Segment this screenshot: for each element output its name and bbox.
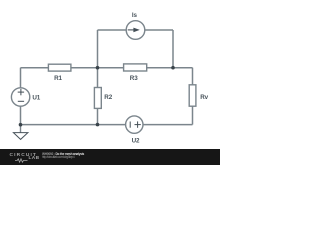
wire left rail U1 bottom xyxy=(20,106,22,124)
wire R2 top stub xyxy=(97,68,99,88)
node C junction U1/ground/bottom rail xyxy=(19,123,23,127)
wire top-left vertical (node R1/R2 to top rail) xyxy=(97,30,99,68)
resistor R1 xyxy=(48,64,71,71)
svg-text:R1: R1 xyxy=(54,75,62,82)
svg-text:Is: Is xyxy=(132,12,138,19)
wire Rv top stub xyxy=(192,68,194,85)
node B junction top/R3/Rv xyxy=(171,66,175,70)
svg-text:U1: U1 xyxy=(32,95,40,102)
wire bottom rail right segment xyxy=(143,124,192,126)
svg-text:R2: R2 xyxy=(104,94,112,101)
wire left rail U1 top xyxy=(20,68,22,88)
wire bottom rail left segment xyxy=(21,124,126,126)
svg-text:Rv: Rv xyxy=(200,94,208,101)
wire right vertical from top rail xyxy=(172,30,174,68)
CircuitLab logo text CIRCUIT xyxy=(10,154,38,158)
wire middle rail R3 right to corner xyxy=(147,67,193,69)
voltage source U1 xyxy=(11,88,29,106)
svg-text:R3: R3 xyxy=(130,75,138,82)
CircuitLab logo text LAB xyxy=(29,157,40,161)
CircuitLab logo resistor zigzag xyxy=(15,158,28,163)
svg-text:U2: U2 xyxy=(132,137,140,144)
wire top rail right segment xyxy=(145,29,173,31)
resistor Rv xyxy=(189,85,196,106)
current source Is xyxy=(126,21,145,40)
wire Rv bottom stub xyxy=(192,106,194,124)
node D junction R2/bottom rail xyxy=(96,123,100,127)
wire top rail left segment xyxy=(98,29,127,31)
footer meta text line 2 xyxy=(42,156,74,159)
node A junction R1/R2/R3 xyxy=(96,66,100,70)
wire middle rail between R1 and R3 xyxy=(71,67,124,69)
wire R2 bottom stub xyxy=(97,108,99,124)
wire middle rail R1 left xyxy=(21,67,49,69)
voltage source U2 xyxy=(126,116,143,133)
footer meta text line 1 xyxy=(42,153,84,156)
resistor R3 xyxy=(124,64,147,71)
footer watermark bar xyxy=(0,149,220,165)
resistor R2 xyxy=(94,88,101,109)
ground xyxy=(13,125,28,140)
